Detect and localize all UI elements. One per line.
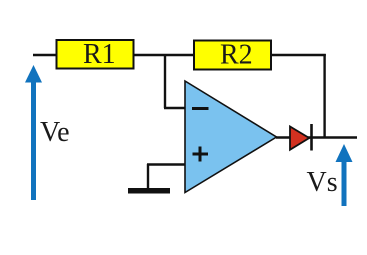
svg-text:Vs: Vs: [307, 167, 338, 198]
svg-text:R1: R1: [83, 39, 116, 70]
svg-text:R2: R2: [220, 40, 253, 71]
svg-text:Ve: Ve: [40, 117, 70, 148]
